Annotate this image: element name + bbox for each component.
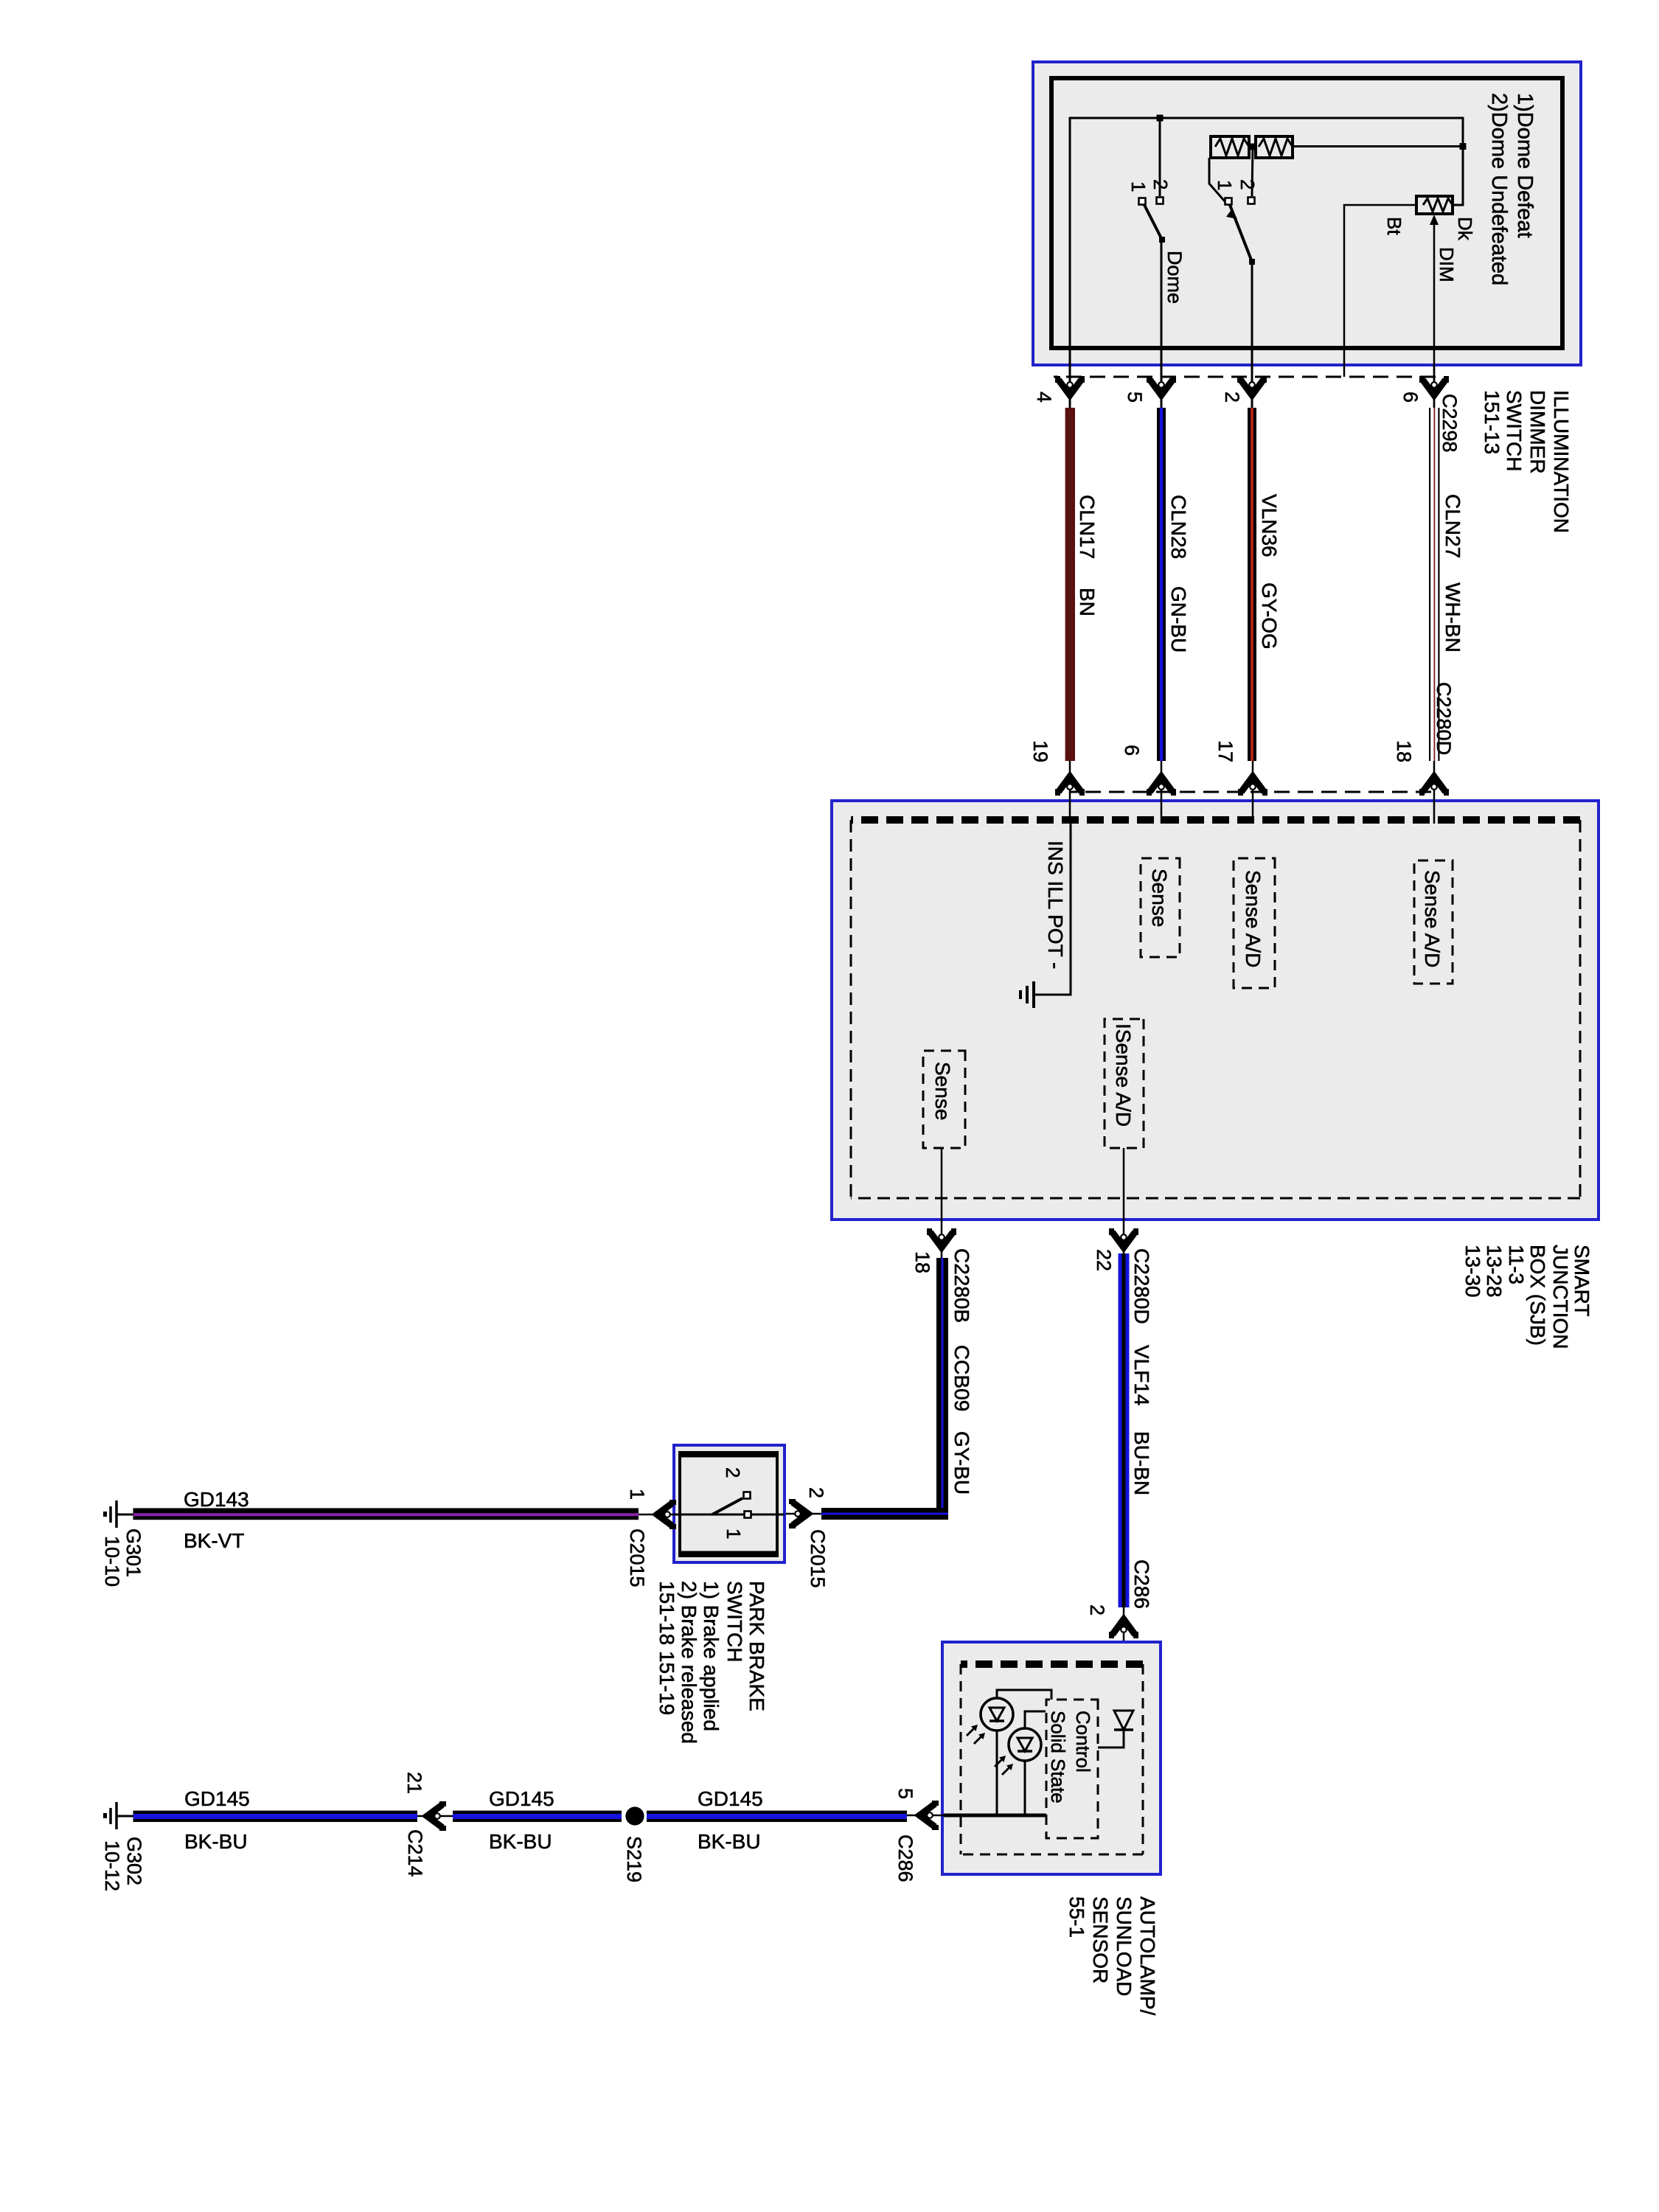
svg-text:Sense: Sense (931, 1062, 954, 1120)
svg-text:Dome: Dome (1164, 251, 1186, 304)
svg-text:BU-BN: BU-BN (1130, 1431, 1153, 1495)
svg-text:10-12: 10-12 (101, 1840, 123, 1891)
svg-text:Control: Control (1072, 1711, 1094, 1773)
svg-text:1) Brake applied: 1) Brake applied (700, 1581, 723, 1731)
svg-text:DIM: DIM (1436, 247, 1458, 282)
svg-text:GN-BU: GN-BU (1167, 586, 1190, 653)
svg-text:GY-BU: GY-BU (950, 1431, 973, 1495)
svg-text:C2015: C2015 (626, 1528, 648, 1587)
svg-text:19: 19 (1029, 740, 1051, 762)
svg-text:BK-BU: BK-BU (184, 1830, 248, 1853)
svg-text:C2280D: C2280D (1130, 1248, 1153, 1324)
svg-text:5: 5 (894, 1788, 917, 1799)
svg-text:2: 2 (1150, 179, 1172, 189)
svg-text:22: 22 (1093, 1249, 1115, 1271)
svg-text:1: 1 (1127, 181, 1150, 192)
svg-text:PARK BRAKE: PARK BRAKE (745, 1581, 768, 1711)
svg-text:CLN28: CLN28 (1167, 495, 1190, 559)
svg-text:Dk: Dk (1454, 217, 1476, 241)
svg-text:SUNLOAD: SUNLOAD (1113, 1896, 1135, 1996)
svg-text:VLF14: VLF14 (1130, 1345, 1153, 1406)
svg-text:1: 1 (723, 1528, 745, 1539)
svg-text:2: 2 (1086, 1604, 1108, 1615)
svg-text:2: 2 (722, 1467, 744, 1478)
svg-text:2)Dome Undefeated: 2)Dome Undefeated (1487, 93, 1511, 285)
svg-text:GY-OG: GY-OG (1258, 582, 1281, 650)
svg-text:JUNCTION: JUNCTION (1549, 1245, 1572, 1349)
svg-text:2: 2 (1221, 392, 1243, 403)
svg-text:10-10: 10-10 (101, 1536, 123, 1587)
svg-text:SENSOR: SENSOR (1089, 1896, 1112, 1983)
svg-text:1: 1 (626, 1489, 648, 1500)
svg-text:C2280B: C2280B (950, 1248, 973, 1323)
svg-text:S219: S219 (623, 1836, 645, 1882)
svg-text:G301: G301 (122, 1528, 145, 1577)
svg-text:AUTOLAMP/: AUTOLAMP/ (1136, 1896, 1159, 2016)
svg-text:2) Brake released: 2) Brake released (678, 1581, 700, 1744)
svg-text:13-28: 13-28 (1483, 1245, 1506, 1298)
svg-text:BOX (SJB): BOX (SJB) (1526, 1245, 1549, 1346)
svg-text:C2298: C2298 (1439, 394, 1461, 453)
svg-text:Bt: Bt (1383, 217, 1405, 235)
svg-text:CCB09: CCB09 (950, 1345, 973, 1411)
svg-text:CLN17: CLN17 (1076, 495, 1099, 559)
svg-text:SWITCH: SWITCH (723, 1581, 746, 1662)
svg-text:CLN27: CLN27 (1441, 494, 1464, 558)
svg-text:18: 18 (1393, 740, 1415, 762)
svg-text:C2280D: C2280D (1433, 682, 1455, 755)
svg-text:ISense A/D: ISense A/D (1112, 1023, 1135, 1127)
svg-text:C286: C286 (894, 1834, 917, 1882)
svg-text:SMART: SMART (1571, 1245, 1593, 1317)
svg-text:G302: G302 (123, 1837, 145, 1885)
svg-text:C214: C214 (404, 1829, 426, 1877)
svg-text:BK-VT: BK-VT (184, 1529, 244, 1552)
svg-text:4: 4 (1033, 392, 1055, 403)
svg-text:11-3: 11-3 (1505, 1245, 1528, 1284)
svg-text:GD145: GD145 (184, 1787, 250, 1810)
svg-text:DIMMER: DIMMER (1526, 390, 1549, 474)
svg-text:VLN36: VLN36 (1258, 494, 1281, 557)
svg-text:C2015: C2015 (807, 1529, 829, 1588)
svg-text:INS ILL POT -: INS ILL POT - (1044, 841, 1067, 969)
svg-text:17: 17 (1214, 740, 1237, 762)
svg-text:ILLUMINATION: ILLUMINATION (1550, 390, 1573, 533)
svg-text:GD145: GD145 (698, 1787, 763, 1810)
svg-text:13-30: 13-30 (1461, 1245, 1484, 1298)
svg-text:2: 2 (1237, 179, 1259, 189)
svg-text:21: 21 (403, 1772, 425, 1794)
svg-text:BK-BU: BK-BU (698, 1830, 761, 1853)
svg-text:55-1: 55-1 (1065, 1896, 1088, 1938)
svg-text:5: 5 (1124, 392, 1146, 403)
svg-text:Sense A/D: Sense A/D (1421, 870, 1444, 967)
svg-text:1: 1 (1214, 180, 1236, 190)
svg-text:Sense: Sense (1148, 869, 1171, 927)
svg-text:18: 18 (911, 1251, 933, 1273)
svg-text:C286: C286 (1130, 1559, 1153, 1609)
svg-text:GD143: GD143 (184, 1488, 249, 1511)
svg-text:WH-BN: WH-BN (1441, 582, 1464, 653)
svg-text:BN: BN (1076, 588, 1099, 616)
svg-text:2: 2 (805, 1487, 827, 1498)
svg-text:Sense A/D: Sense A/D (1242, 870, 1265, 967)
svg-text:151-13: 151-13 (1481, 390, 1503, 454)
svg-text:SWITCH: SWITCH (1503, 390, 1526, 471)
svg-text:6: 6 (1399, 392, 1422, 403)
svg-text:GD145: GD145 (489, 1787, 554, 1810)
svg-text:BK-BU: BK-BU (489, 1830, 552, 1853)
svg-text:1)Dome Defeat: 1)Dome Defeat (1513, 93, 1537, 238)
svg-text:Solid State: Solid State (1047, 1711, 1069, 1804)
svg-text:151-18 151-19: 151-18 151-19 (655, 1581, 678, 1715)
svg-text:6: 6 (1121, 745, 1143, 756)
